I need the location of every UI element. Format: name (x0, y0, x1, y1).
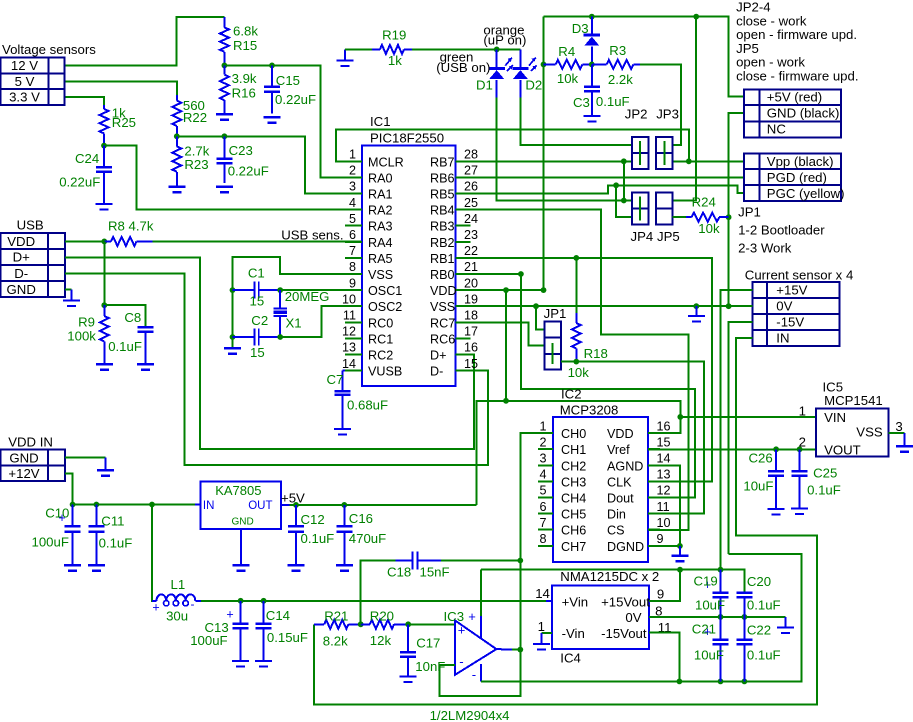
junction C24 tap (101, 143, 107, 149)
svg-text:8.2k: 8.2k (323, 634, 348, 649)
svg-text:3: 3 (539, 452, 546, 466)
resistor R19 (345, 45, 412, 54)
wire VDD pin20 row (456, 289, 544, 291)
junction X1 top OSC1 (277, 287, 283, 293)
junction R4/D3/R3/C3 node (589, 62, 595, 68)
svg-text:USB: USB (17, 218, 44, 233)
label C20 (747, 574, 781, 613)
text USB (17, 218, 44, 233)
wire +5V to IC2 VDD and IC5 VIN (477, 401, 681, 505)
label IC3 (444, 609, 465, 624)
svg-text:1: 1 (349, 148, 356, 162)
capacitor C21 polarized (704, 617, 729, 682)
resistor R24 (686, 213, 729, 222)
text orange uP on (483, 23, 526, 48)
label C11 (99, 514, 133, 551)
diode D3 (584, 17, 600, 65)
svg-text:100uF: 100uF (32, 535, 69, 550)
svg-text:1: 1 (538, 619, 545, 634)
svg-text:-15Vout: -15Vout (601, 626, 647, 641)
label IC5 (823, 380, 883, 409)
capacitor C23 (216, 136, 232, 183)
label JP4 JP5 (631, 229, 680, 244)
junction D1 top (494, 47, 500, 53)
svg-text:Vpp (black): Vpp (black) (767, 154, 834, 169)
op-amp IC2 MCP3208 box with pins (538, 417, 671, 562)
svg-text:2: 2 (539, 435, 546, 449)
wire USB sense to RA4 pin 6 (153, 240, 362, 242)
wire USB VDD to R8 (65, 240, 105, 242)
svg-text:R15: R15 (233, 38, 257, 53)
ground below C13 (232, 661, 249, 667)
wire IC2 Vref pin15 to C26 C25 IC5 VOUT (648, 448, 816, 450)
svg-text:IC4: IC4 (560, 651, 581, 666)
svg-text:1/2LM2904x4: 1/2LM2904x4 (430, 708, 510, 722)
wire NMA -15Vout (649, 633, 680, 682)
svg-text:D1: D1 (476, 78, 493, 93)
svg-text:0.22uF: 0.22uF (228, 164, 269, 179)
converter IC4 NMA1215DC box (552, 585, 650, 649)
svg-text:VSS: VSS (856, 425, 883, 440)
wire RB6 pin27 to PGD row (456, 176, 744, 178)
wire GND row to ground net (729, 113, 744, 306)
regulator KA7805 box (201, 481, 281, 529)
label C13 (190, 620, 229, 648)
junction R20/C17 (405, 621, 411, 627)
capacitor C1 (233, 282, 281, 299)
svg-text:12: 12 (657, 484, 671, 498)
resistor R15 (220, 17, 229, 65)
wire output net to IC2 CH0 pin1 (520, 433, 553, 560)
wire R19 to LEDs (412, 48, 520, 50)
capacitor C3 (584, 64, 600, 116)
junction on D1 wire (621, 198, 627, 204)
label IC1 (370, 114, 444, 146)
wire Vpp row (673, 160, 744, 162)
label R22 (183, 98, 207, 125)
svg-text:-15V: -15V (776, 315, 804, 330)
capacitor C26 (768, 449, 784, 509)
svg-text:3: 3 (895, 419, 902, 434)
svg-text:9: 9 (349, 276, 356, 290)
svg-text:JP4: JP4 (631, 229, 654, 244)
junction USB VDD (101, 239, 107, 245)
label C19 (694, 574, 726, 613)
svg-text:100k: 100k (67, 329, 96, 344)
label R19 (382, 28, 406, 69)
ground USB (63, 290, 80, 306)
svg-text:+: + (152, 601, 159, 615)
ground KA7805 GND pin (232, 529, 249, 571)
wire +12V rail (65, 473, 195, 504)
junction C19 bottom (718, 614, 724, 620)
svg-text:8: 8 (539, 532, 546, 546)
connector ICSP power +5V GND NC (744, 90, 841, 138)
jumper JP2 (632, 137, 648, 169)
svg-text:+12V: +12V (8, 466, 39, 481)
svg-text:5: 5 (539, 484, 546, 498)
label C22 (747, 623, 781, 663)
svg-text:NC: NC (767, 122, 787, 137)
svg-text:10: 10 (657, 516, 671, 530)
svg-text:-: - (191, 597, 195, 611)
connector VDD IN (1, 450, 65, 482)
junction C13 (238, 598, 244, 604)
svg-text:JP5: JP5 (736, 41, 759, 56)
label X1 (285, 289, 330, 331)
svg-text:C23: C23 (229, 143, 253, 158)
svg-text:(uP on): (uP on) (483, 33, 526, 48)
junction +15V rail left (677, 567, 683, 573)
svg-text:PGD (red): PGD (red) (767, 170, 827, 185)
svg-text:1: 1 (539, 419, 546, 433)
junction C2 left (230, 334, 236, 340)
junction X1 bottom OSC2 (277, 334, 283, 340)
svg-text:PIC18F2550: PIC18F2550 (370, 131, 444, 146)
label C2 (250, 313, 268, 360)
svg-text:CH5: CH5 (561, 508, 586, 522)
svg-text:R19: R19 (382, 28, 406, 43)
svg-text:D-: D- (430, 365, 443, 379)
wire to JP1 pin1 (536, 306, 544, 329)
svg-text:Voltage sensors: Voltage sensors (2, 42, 96, 57)
label R8 (108, 219, 154, 234)
label NMA pin1 (538, 619, 545, 634)
wire RB7 drop to D1 net (623, 161, 625, 200)
label R21 (323, 608, 349, 648)
svg-text:IC2: IC2 (561, 387, 582, 402)
junction 0V gnd (693, 303, 699, 309)
svg-text:JP1: JP1 (544, 306, 567, 321)
svg-text:11: 11 (343, 309, 356, 323)
wire OSC2 to pin 10 (280, 306, 362, 337)
svg-text:C11: C11 (101, 514, 124, 529)
svg-text:1k: 1k (388, 53, 402, 68)
jumper JP5 (656, 193, 673, 225)
svg-text:-: - (472, 667, 476, 682)
wire RC7 pin18 to JP1 pin2 (456, 322, 545, 345)
label IC5 pin3 (895, 419, 902, 434)
label L1 (166, 577, 188, 624)
svg-text:10uF: 10uF (695, 598, 725, 613)
svg-text:0.1uF: 0.1uF (747, 648, 781, 663)
svg-text:0V: 0V (625, 610, 641, 625)
svg-text:22: 22 (464, 244, 478, 258)
label C18 (387, 565, 450, 580)
svg-text:26: 26 (464, 180, 478, 194)
svg-text:JP3: JP3 (656, 106, 679, 121)
svg-text:100uF: 100uF (190, 633, 227, 648)
svg-text:OSC2: OSC2 (368, 300, 402, 314)
svg-text:AGND: AGND (607, 459, 643, 473)
svg-text:GND: GND (7, 282, 36, 297)
svg-text:R21: R21 (324, 608, 348, 623)
label C23 (228, 143, 269, 179)
text VDD IN (8, 435, 53, 450)
svg-text:close - firmware upd.: close - firmware upd. (736, 69, 858, 84)
junction R18 top (573, 255, 579, 261)
label R9 (67, 315, 96, 344)
op-amp IC3 V+ supply pin (468, 570, 481, 638)
label D1 (476, 78, 493, 93)
svg-text:4: 4 (539, 468, 546, 482)
capacitor C14 (256, 601, 272, 661)
svg-text:15: 15 (250, 345, 265, 360)
wire 12V from connector to R15 top (65, 17, 225, 65)
capacitor C19 polarized (704, 570, 729, 617)
svg-text:470uF: 470uF (349, 531, 386, 546)
wire JP5 bottom to R24 (673, 216, 686, 218)
svg-text:+Vin: +Vin (562, 595, 589, 610)
svg-text:CH4: CH4 (561, 492, 586, 506)
wire 3.3V from connector to R25 (65, 97, 105, 105)
label IC5 pin2 (799, 434, 806, 449)
svg-text:0.1uF: 0.1uF (108, 339, 142, 354)
wire op-amp output (496, 648, 520, 651)
svg-text:R4: R4 (558, 44, 575, 59)
wire IC2 DGND pin9 (648, 545, 680, 547)
svg-text:18: 18 (464, 309, 478, 323)
label C1 (248, 266, 265, 309)
svg-text:RB0: RB0 (430, 268, 455, 282)
junction RB7-D1 drop (621, 158, 627, 164)
svg-text:C14: C14 (266, 608, 290, 623)
capacitor C7 (335, 371, 351, 429)
svg-text:-: - (459, 654, 463, 669)
LED D1 (489, 49, 513, 97)
svg-text:CH6: CH6 (561, 524, 586, 538)
svg-text:C22: C22 (747, 623, 771, 638)
capacitor C11 (88, 505, 104, 566)
svg-text:RB7: RB7 (430, 155, 455, 169)
svg-text:R3: R3 (609, 43, 626, 58)
svg-text:10uF: 10uF (743, 479, 773, 494)
svg-text:RA5: RA5 (368, 252, 393, 266)
svg-text:R20: R20 (370, 608, 394, 623)
label IC4 (560, 651, 581, 666)
wire KA7805 OUT +5V rail (281, 504, 477, 506)
wire RB5 pin26 to PGC row (456, 185, 744, 193)
ground below R9 (96, 364, 113, 370)
text 1/2LM2904x4 (430, 708, 510, 722)
wire JP1 pin3 R18 to IC2 Din pin11 (561, 362, 704, 514)
svg-text:RA1: RA1 (368, 188, 393, 202)
svg-text:R22: R22 (183, 110, 207, 125)
svg-text:RA3: RA3 (368, 220, 393, 234)
junction R4 left (541, 62, 547, 68)
svg-text:23: 23 (464, 228, 478, 242)
svg-text:RB5: RB5 (430, 188, 455, 202)
svg-text:6: 6 (349, 228, 356, 242)
svg-text:5 V: 5 V (15, 74, 35, 89)
svg-text:13: 13 (657, 468, 671, 482)
svg-text:10: 10 (342, 292, 356, 306)
svg-text:CH0: CH0 (561, 427, 586, 441)
junction C18 output net (517, 558, 523, 564)
label JP2 JP3 (625, 106, 679, 121)
label C14 (266, 608, 308, 645)
wire NMA 0V row (649, 616, 786, 618)
label NMA pin8 (655, 604, 662, 619)
text JP2-4 info (736, 0, 858, 84)
svg-text:KA7805: KA7805 (215, 483, 261, 498)
inductor L1 (152, 594, 201, 606)
svg-text:PGC (yellow): PGC (yellow) (767, 186, 845, 201)
svg-text:IN: IN (776, 331, 789, 346)
junction node R16 top (222, 63, 228, 69)
label C21 (692, 622, 724, 663)
wire +5V drop from VDD row (505, 290, 507, 401)
wire C18 branch (361, 561, 396, 625)
svg-text:+: + (468, 609, 476, 624)
ground below R16 (216, 100, 233, 120)
svg-text:20: 20 (464, 276, 478, 290)
ground below C17 (400, 677, 417, 683)
text JP1 info (738, 205, 825, 256)
capacitor C10 polarized (58, 505, 80, 566)
label R24 (692, 195, 720, 237)
resistor R16 (220, 65, 229, 100)
label R16 value (232, 71, 257, 101)
ground below R23 (168, 172, 185, 193)
svg-text:0.22uF: 0.22uF (59, 175, 100, 190)
svg-text:USB sens.: USB sens. (281, 228, 343, 243)
junction C21 bottom (718, 679, 724, 685)
svg-text:VIN: VIN (824, 410, 846, 425)
svg-text:10k: 10k (557, 71, 579, 86)
resistor R21 (314, 620, 361, 629)
label C8 (108, 310, 142, 354)
junction C19 top (718, 567, 724, 573)
resistor R9 (100, 305, 109, 364)
junction +5V mid (503, 398, 509, 404)
svg-text:VDD: VDD (430, 284, 457, 298)
ground at R19 left (336, 49, 353, 66)
svg-text:C7: C7 (327, 372, 344, 387)
svg-text:RA2: RA2 (368, 204, 393, 218)
svg-text:IN: IN (203, 500, 215, 512)
wire NMA -Vin ground (542, 632, 553, 634)
ground below C3 (583, 116, 600, 122)
junction +5V mid drop (503, 287, 509, 293)
label C16 (349, 511, 386, 546)
ground below C23 (216, 187, 233, 193)
capacitor C16 (336, 505, 352, 565)
wire VDD IN GND (65, 456, 106, 458)
svg-text:DGND: DGND (607, 540, 644, 554)
svg-text:Dout: Dout (607, 492, 634, 506)
svg-text:R24: R24 (692, 195, 716, 210)
svg-text:RA4: RA4 (368, 236, 393, 250)
capacitor C15 (264, 65, 280, 113)
svg-text:10k: 10k (568, 365, 590, 380)
label R4 (557, 44, 579, 86)
svg-text:D3: D3 (572, 21, 589, 36)
svg-text:16: 16 (464, 341, 478, 355)
svg-text:15: 15 (250, 294, 265, 309)
junction JP5 riser (693, 14, 699, 20)
wire RB0 pin21 to IC2 Dout pin12 (456, 274, 696, 498)
svg-text:C10: C10 (45, 506, 69, 521)
svg-text:C20: C20 (747, 574, 771, 589)
junction R9 top (101, 302, 107, 308)
svg-text:0.1uF: 0.1uF (301, 531, 335, 546)
svg-text:C26: C26 (749, 451, 773, 466)
svg-text:RC0: RC0 (368, 316, 393, 330)
svg-text:VSS: VSS (368, 268, 393, 282)
svg-text:D+: D+ (430, 349, 446, 363)
wire 5V from connector to R22 (65, 81, 177, 95)
svg-text:RB4: RB4 (430, 204, 455, 218)
svg-text:10nF: 10nF (415, 659, 445, 674)
svg-text:0V: 0V (776, 299, 792, 314)
svg-text:VDD: VDD (607, 427, 634, 441)
svg-text:16: 16 (657, 419, 671, 433)
op-amp IC5 MCP1541 box (816, 409, 888, 458)
wire +5V top rail (544, 17, 744, 97)
svg-text:R18: R18 (584, 346, 608, 361)
wire USB D- to IC1 D- pin15 (65, 274, 488, 465)
wire +15V row riser (721, 290, 753, 570)
ground IC5 VSS (896, 433, 913, 452)
svg-text:CH1: CH1 (561, 443, 586, 457)
wire D2 to JP2 top (520, 98, 632, 145)
svg-text:C21: C21 (692, 622, 716, 637)
svg-text:0.22uF: 0.22uF (275, 92, 316, 107)
capacitor C13 polarized (226, 601, 248, 661)
wire VDD down to R9 (103, 241, 105, 305)
junction VDD pin20 (541, 287, 547, 293)
wire R20 to op-amp + input (408, 623, 455, 625)
junction R24 right (726, 214, 732, 220)
svg-text:C24: C24 (75, 151, 99, 166)
junction R23 top (174, 133, 180, 139)
svg-text:C3: C3 (573, 95, 590, 110)
label C10 (32, 506, 70, 550)
jumper JP1 3-pin (544, 322, 561, 370)
svg-text:Vref: Vref (607, 443, 630, 457)
crystal X1 (274, 290, 287, 337)
svg-text:12 V: 12 V (11, 58, 38, 73)
wire JP4 bottom to PGC net (616, 185, 632, 217)
label NMA pin9 (657, 587, 664, 602)
svg-text:RC1: RC1 (368, 332, 393, 346)
svg-text:27: 27 (464, 164, 478, 178)
svg-text:RA0: RA0 (368, 171, 393, 185)
wire MCLR pin1 to Vpp (336, 129, 689, 161)
label R23 (184, 144, 209, 173)
svg-text:C15: C15 (276, 73, 300, 88)
wire node R22/R23 to RA1 pin 3 (177, 136, 362, 193)
svg-text:21: 21 (464, 260, 478, 274)
wire R3 to JP3 top (640, 64, 681, 144)
capacitor C22 (736, 617, 752, 682)
label JP1 jumper (544, 306, 567, 321)
svg-text:2-3 Work: 2-3 Work (738, 240, 792, 255)
ground below C24 (96, 204, 113, 210)
ground on 0V rail (688, 306, 705, 321)
svg-text:19: 19 (464, 292, 478, 306)
svg-text:D-: D- (14, 266, 28, 281)
capacitor C12 (288, 505, 304, 565)
capacitor C25 (792, 449, 808, 508)
wire L1 to NMA +Vin pin14 (201, 600, 552, 602)
wire IC2 right pin stubs (648, 433, 660, 546)
resistor R8 (104, 237, 152, 246)
resistor R3 (592, 60, 640, 69)
connector current sensor (752, 282, 839, 346)
svg-text:7: 7 (349, 244, 356, 258)
